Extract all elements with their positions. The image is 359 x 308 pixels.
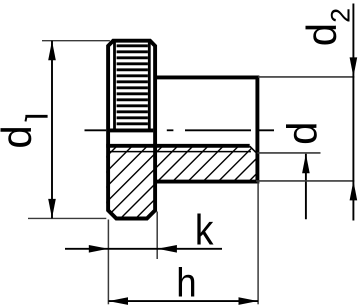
svg-text:d: d [278, 122, 325, 145]
k dimension line [65, 248, 222, 250]
d2 dimension line [352, 4, 354, 221]
d1 arrow down [48, 199, 56, 219]
knurl chamfer inner vertical right [148, 43, 151, 130]
d2 extension line top [258, 76, 354, 78]
d2 arrow down [350, 57, 358, 77]
label d1 subscript 1 [25, 115, 47, 118]
d2 arrow up [350, 181, 358, 201]
h arrow left [109, 297, 129, 305]
h extension line right [257, 181, 259, 304]
knurl bottom line [110, 128, 153, 132]
k arrow outside-right pointing left [157, 245, 177, 253]
d extension line (thread major) [257, 152, 320, 154]
knurl lines [117, 46, 148, 124]
svg-text:k: k [195, 206, 214, 254]
section hatching [41, 140, 290, 222]
d1 dimension line [51, 41, 53, 219]
bore wall line [106, 144, 249, 148]
h dimension line [108, 300, 258, 302]
body outline [155, 77, 257, 181]
svg-text:d: d [0, 125, 40, 148]
thread end chamfer [250, 146, 256, 152]
h arrow right [239, 297, 259, 305]
knurl chamfer inner vertical left [113, 43, 116, 130]
k extension line left [107, 220, 109, 305]
svg-text:d2: d2 [298, 8, 356, 46]
d1 extension line top [42, 40, 110, 42]
d1 arrow up [48, 41, 56, 61]
d1 extension line bottom [28, 217, 106, 219]
d arrow up [302, 154, 310, 174]
centerline [85, 129, 275, 131]
k extension line right [156, 212, 158, 260]
thread major diameter thin line [110, 151, 251, 153]
k arrow outside-left pointing right [89, 245, 109, 253]
svg-text:h: h [176, 260, 196, 306]
d dimension line [305, 154, 307, 220]
knurled head outline [108, 41, 155, 219]
shared extension line bottom (d2/d) [256, 180, 354, 182]
